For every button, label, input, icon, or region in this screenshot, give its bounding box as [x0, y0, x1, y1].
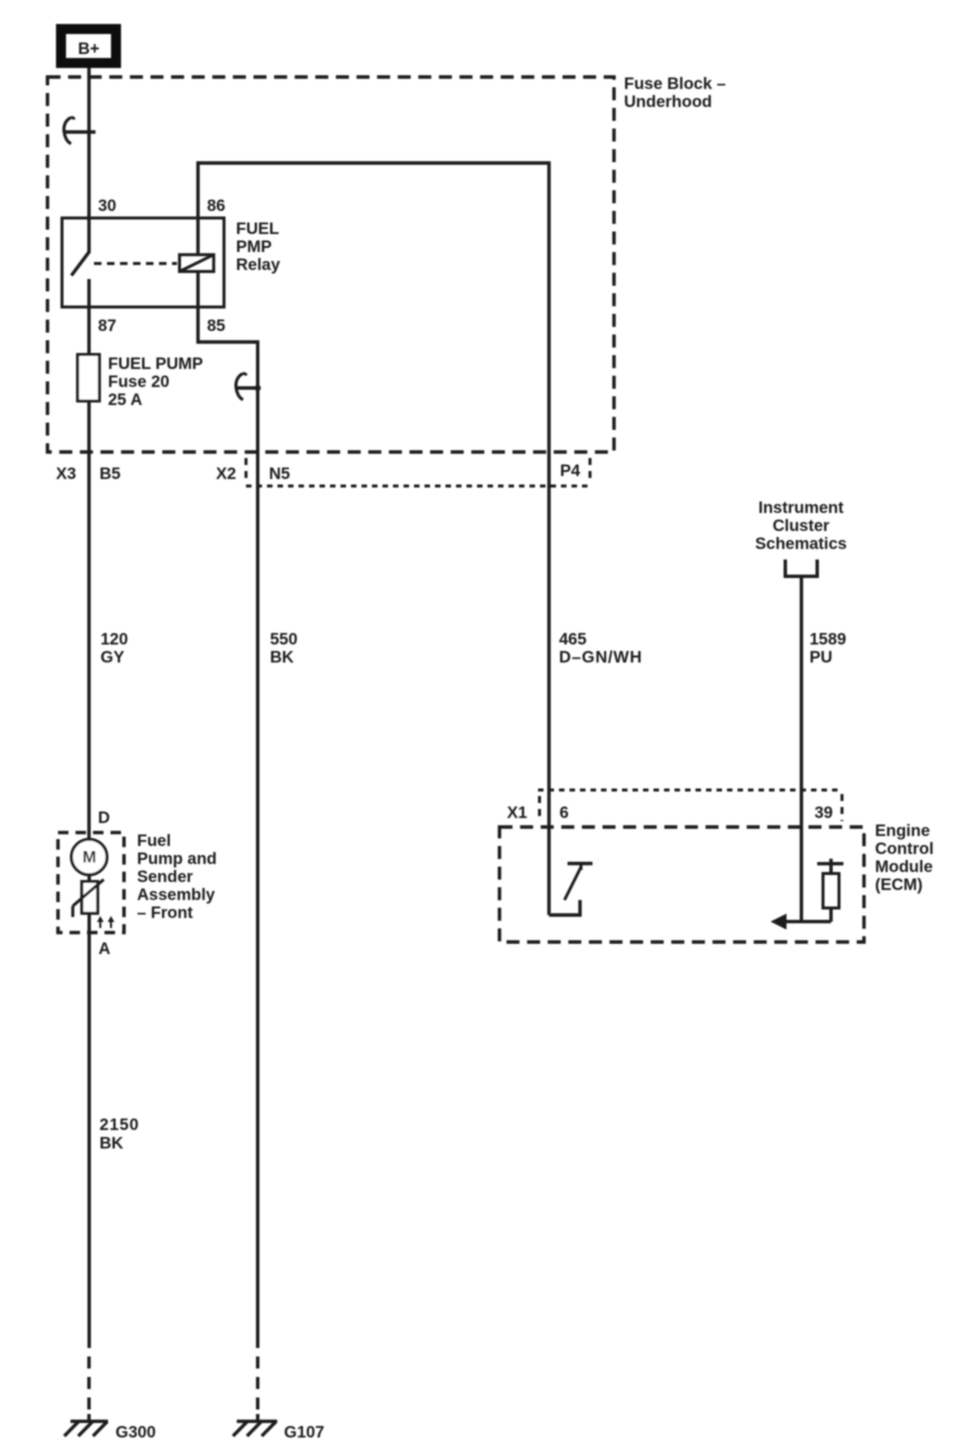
- svg-text:– Front: – Front: [137, 904, 193, 922]
- relay switch contact 30-87: [71, 218, 89, 276]
- battery feed B+: [61, 29, 116, 63]
- svg-text:G107: G107: [284, 1424, 324, 1442]
- wire sender to ground drop: [87, 913, 90, 1348]
- wire label 2150 BK: [100, 1116, 140, 1153]
- svg-text:Instrument: Instrument: [758, 499, 844, 517]
- svg-text:Schematics: Schematics: [755, 535, 847, 553]
- svg-text:A: A: [99, 940, 111, 958]
- Fuse Block - Underhood dashed box: [48, 77, 615, 452]
- wire label 465 D-GN/WH: [559, 631, 643, 667]
- wire motor to sender: [87, 875, 90, 882]
- wire relay pin 85 to 550 BK drop: [198, 307, 258, 1348]
- svg-text:85: 85: [207, 317, 225, 335]
- svg-text:2150: 2150: [100, 1116, 140, 1134]
- svg-text:P4: P4: [560, 462, 581, 480]
- svg-text:B5: B5: [100, 465, 121, 483]
- wire B+ to relay pin 30: [87, 68, 90, 218]
- svg-text:Sender: Sender: [137, 868, 194, 886]
- svg-text:G300: G300: [116, 1424, 156, 1442]
- svg-text:PU: PU: [810, 649, 833, 667]
- Fuel Pump and Sender Assembly dashed box: [58, 833, 124, 933]
- svg-text:BK: BK: [100, 1135, 124, 1153]
- ground G300: [64, 1421, 156, 1441]
- svg-text:87: 87: [98, 317, 116, 335]
- wire pin 87 through fuse down to pump: [87, 307, 90, 838]
- dashed wire ends to grounds: [87, 1348, 90, 1414]
- svg-text:120: 120: [101, 631, 129, 649]
- connector symbol on B+ feed: [64, 118, 96, 144]
- svg-text:FUEL PUMP: FUEL PUMP: [108, 355, 203, 373]
- svg-text:Engine: Engine: [875, 822, 930, 840]
- svg-text:X3: X3: [56, 465, 76, 483]
- connector symbol on 550 BK wire: [236, 374, 261, 400]
- label Engine Control Module (ECM): [875, 822, 934, 894]
- connector row dotted box N5-P4: [246, 458, 590, 486]
- svg-text:1589: 1589: [810, 631, 847, 649]
- svg-text:Pump and: Pump and: [137, 850, 217, 868]
- svg-text:Module: Module: [875, 858, 933, 876]
- svg-text:N5: N5: [269, 465, 290, 483]
- wire label 1589 PU: [810, 631, 847, 667]
- svg-text:(ECM): (ECM): [875, 876, 923, 894]
- svg-text:Assembly: Assembly: [137, 886, 216, 904]
- wire relay pin 86 internal: [196, 218, 199, 255]
- off-page bracket: [785, 560, 817, 577]
- svg-text:M: M: [83, 849, 97, 867]
- svg-text:86: 86: [207, 197, 225, 215]
- relay U1 FUEL PMP Relay box: [62, 218, 224, 307]
- svg-text:Relay: Relay: [236, 256, 281, 274]
- label Fuse Block - Underhood: [624, 75, 726, 111]
- ECM low-side driver symbol at pin 6: [549, 863, 593, 915]
- motor M fuel pump: [71, 839, 107, 875]
- svg-text:25 A: 25 A: [108, 391, 142, 409]
- wire 1589 PU to ECM pin 39: [800, 576, 803, 921]
- svg-text:Control: Control: [875, 840, 934, 858]
- wire 465 from pin 86 up over and down to ECM pin 6: [198, 163, 549, 915]
- ground G107: [233, 1421, 324, 1441]
- label Fuel Pump and Sender Assembly - Front: [137, 832, 217, 922]
- svg-text:Fuel: Fuel: [137, 832, 171, 850]
- connector X1 dotted row: [538, 790, 842, 821]
- sender variable resistor: [73, 880, 104, 918]
- ECM internal signal line with arrow: [771, 914, 832, 930]
- label FUEL PUMP Fuse: [108, 355, 203, 409]
- level indicator arrows: [97, 916, 115, 928]
- svg-text:550: 550: [270, 631, 298, 649]
- svg-text:GY: GY: [101, 649, 125, 667]
- svg-text:D–GN/WH: D–GN/WH: [559, 649, 643, 667]
- wire label 550 BK: [270, 631, 298, 667]
- svg-text:6: 6: [560, 804, 569, 822]
- relay coil (box with diagonal): [180, 255, 214, 272]
- off-page reference Instrument Cluster Schematics: [755, 499, 847, 553]
- svg-text:Underhood: Underhood: [624, 93, 712, 111]
- svg-text:PMP: PMP: [236, 238, 272, 256]
- svg-text:39: 39: [815, 804, 833, 822]
- relay actuation dashed link: [94, 262, 177, 265]
- svg-text:B+: B+: [78, 40, 100, 58]
- svg-text:465: 465: [559, 631, 587, 649]
- wire label 120 GY: [101, 631, 129, 667]
- svg-text:X1: X1: [507, 804, 527, 822]
- svg-text:Fuse 20: Fuse 20: [108, 373, 169, 391]
- svg-text:X2: X2: [216, 465, 236, 483]
- svg-text:Cluster: Cluster: [773, 517, 830, 535]
- fuse F1 FUEL PUMP Fuse 20 25A: [78, 355, 100, 402]
- svg-text:30: 30: [98, 197, 116, 215]
- svg-text:Fuse Block –: Fuse Block –: [624, 75, 726, 93]
- ECM internal resistor at pin 39: [817, 859, 843, 922]
- svg-text:FUEL: FUEL: [236, 220, 279, 238]
- svg-text:BK: BK: [270, 649, 294, 667]
- ECM dashed box: [500, 827, 865, 942]
- label FUEL PMP Relay: [236, 220, 281, 274]
- svg-text:D: D: [98, 809, 110, 827]
